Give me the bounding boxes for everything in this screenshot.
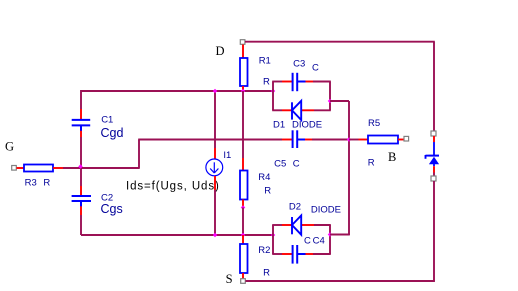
node junction D2 loop to body link — [328, 232, 333, 237]
terminal zener top — [431, 131, 436, 136]
wire R5 pin left (red) — [359, 139, 369, 141]
svg-text:D: D — [216, 44, 225, 58]
diode D2 — [292, 216, 301, 235]
svg-text:C1: C1 — [101, 115, 113, 126]
terminal B — [404, 136, 409, 141]
svg-text:DIODE: DIODE — [292, 119, 322, 130]
current source I1 — [206, 159, 223, 176]
wire pin lead R3 right (red) — [53, 167, 63, 169]
wire bottom bus source node — [81, 234, 273, 236]
resistor R3 — [24, 165, 53, 172]
wire pin leads of D1 (red) — [282, 109, 314, 111]
svg-text:C4: C4 — [313, 236, 325, 247]
capacitor C5 — [293, 130, 305, 148]
wire gate step vertical — [138, 140, 140, 169]
wire R column middle — [242, 91, 244, 158]
svg-text:DIODE: DIODE — [311, 205, 341, 216]
wire right rail upper — [433, 42, 435, 131]
wire I1 pin top (red) — [214, 148, 216, 159]
wire drain top rail — [245, 41, 435, 43]
wire pin leads of C4 (red) — [282, 253, 313, 255]
svg-text:R3: R3 — [25, 178, 37, 189]
wire C3/D1 loop left edge — [272, 82, 274, 111]
svg-text:R2: R2 — [258, 245, 270, 256]
wire pin leads of C1 and C2 (red) — [80, 109, 82, 215]
resistor R2 — [240, 244, 248, 273]
wire D2/C4 loop bottom edge — [272, 253, 331, 255]
svg-text:S: S — [226, 272, 233, 286]
wire left vertical gate-branch x=81 — [80, 90, 82, 235]
resistor R4 — [240, 171, 248, 200]
svg-text:C: C — [312, 63, 319, 74]
svg-text:R: R — [43, 178, 50, 189]
wire R5 pin right (red) — [398, 139, 404, 141]
svg-text:C3: C3 — [293, 59, 305, 70]
svg-text:R: R — [263, 268, 270, 279]
wire D2/C4 loop right edge — [329, 225, 331, 254]
wire R2 pin top (red) — [242, 235, 244, 244]
wire gate-to-body horizontal through C5 — [138, 139, 349, 141]
node junction source bus to D2 loop — [271, 233, 276, 238]
wire I1 pin bottom (red) — [214, 176, 216, 190]
wire pin lead D to R1 (red) — [242, 45, 244, 59]
svg-text:I1: I1 — [223, 150, 231, 161]
capacitor C4 — [293, 245, 306, 264]
node junction R1 top bus — [241, 89, 246, 94]
wire zener pin bottom (red) — [433, 166, 435, 172]
wire pin lead G to R3 (red) — [17, 167, 25, 169]
wire top bus drain node — [81, 90, 273, 92]
wire R4 pin top (red) — [242, 158, 244, 171]
svg-text:G: G — [5, 139, 14, 153]
wire body link top horizontal — [330, 100, 349, 102]
svg-text:R: R — [368, 157, 375, 168]
wire R4 pin bottom (red) — [242, 200, 244, 208]
terminal G — [12, 166, 17, 171]
node junction I1 bottom bus — [213, 233, 218, 238]
capacitor C2 Cgs — [72, 196, 91, 206]
svg-text:R: R — [263, 76, 270, 87]
wire C3/D1 loop right edge — [329, 82, 331, 111]
wire D2/C4 loop left edge — [272, 225, 274, 254]
node junction drain bus to D1 loop — [271, 89, 276, 94]
wire pin lead R1 bottom (red) — [242, 86, 244, 92]
wire C3/D1 loop top edge — [272, 81, 331, 83]
node junction R column bottom bus — [241, 233, 246, 238]
terminal zener bottom — [431, 176, 436, 181]
wire R column lower — [242, 208, 244, 236]
svg-text:R4: R4 — [258, 172, 270, 183]
svg-text:Ids=f(Ugs, Uds): Ids=f(Ugs, Uds) — [126, 180, 220, 192]
svg-text:C5: C5 — [274, 158, 286, 169]
capacitor C3 — [293, 73, 306, 91]
svg-text:R5: R5 — [368, 118, 380, 129]
node gate junction — [78, 164, 83, 169]
node junction body to R5 — [347, 137, 352, 142]
resistor R1 — [240, 58, 248, 86]
terminal D — [240, 40, 245, 45]
wire right rail lower — [433, 181, 435, 282]
svg-text:D1: D1 — [273, 119, 285, 130]
node junction D1 loop to body link — [328, 99, 333, 104]
svg-text:R1: R1 — [259, 56, 271, 67]
node R4 pin end — [241, 205, 246, 210]
svg-text:C: C — [293, 158, 300, 169]
wire pin leads of D2 (red) — [282, 224, 314, 226]
svg-text:C: C — [304, 236, 311, 247]
svg-text:B: B — [388, 150, 396, 164]
wire body link bottom horizontal — [330, 234, 350, 236]
wire I1 column upper — [214, 91, 216, 148]
zener diode D3 — [426, 142, 440, 166]
wire R5 feed — [349, 139, 359, 141]
wire zener pin top (red) — [433, 136, 435, 142]
resistor R5 — [368, 136, 398, 144]
wire D2/C4 loop top edge — [272, 224, 331, 226]
capacitor C1 Cgd — [72, 120, 91, 131]
wire C3/D1 loop bottom edge — [272, 109, 331, 111]
wire pin leads of C5 (red) — [282, 139, 312, 141]
node junction I1 top bus — [213, 89, 218, 94]
terminal S — [241, 279, 246, 284]
wire source bottom rail — [246, 280, 435, 282]
svg-text:D2: D2 — [289, 202, 301, 213]
wire R2 pin bottom (red) — [242, 273, 244, 279]
wire gate node horizontal — [63, 167, 139, 169]
wire pin leads of C3 (red) — [282, 81, 313, 83]
wire body vertical — [348, 101, 350, 235]
diode D1 — [292, 101, 301, 120]
wire I1 column lower — [214, 190, 216, 235]
svg-text:Cgs: Cgs — [101, 202, 123, 216]
svg-text:Cgd: Cgd — [101, 126, 124, 140]
svg-text:R: R — [264, 186, 271, 197]
